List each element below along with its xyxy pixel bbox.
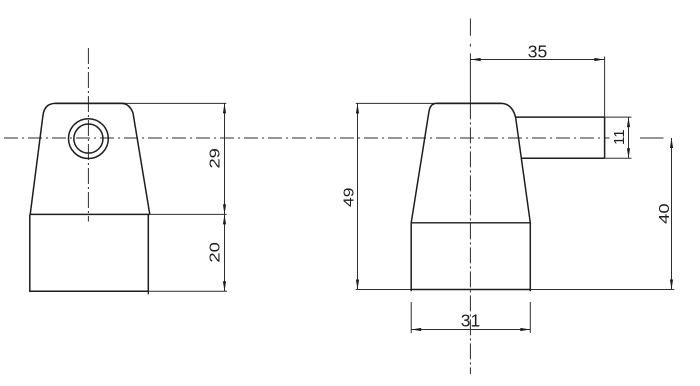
- right view vertical centerline lower part: [469, 103, 471, 374]
- hole inner circle: [74, 124, 103, 153]
- arrow 40 bottom: [670, 280, 673, 290]
- arrow 31 right: [520, 328, 530, 331]
- svg-text:35: 35: [528, 42, 547, 62]
- right view middle line: [411, 222, 530, 224]
- left view middle edge: [30, 213, 150, 215]
- arrow 35 right: [594, 58, 604, 61]
- dimension line 29/20: [224, 103, 226, 291]
- dimension line 31: [411, 329, 530, 331]
- left view bottom edge: [29, 290, 149, 292]
- arrow 40 top: [670, 138, 673, 148]
- right view spout right edge: [604, 117, 606, 158]
- svg-text:11: 11: [611, 129, 628, 145]
- extension lines for 31: [411, 302, 530, 333]
- right view top edge: [437, 102, 503, 104]
- svg-text:49: 49: [340, 187, 357, 207]
- left view top edge: [55, 102, 125, 104]
- arrow 29 top: [223, 103, 226, 113]
- arrow 49 bottom: [356, 280, 359, 290]
- arrow 11 bottom: [627, 148, 630, 158]
- svg-text:20: 20: [207, 242, 224, 263]
- dimension line 35: [470, 59, 604, 61]
- 29-dim top extension line: [125, 102, 226, 104]
- arrow 35 left: [471, 58, 481, 61]
- left view base rectangle: [30, 214, 149, 291]
- arrow 49 top: [356, 104, 359, 114]
- left view vertical centerline: [87, 48, 89, 222]
- extension lines for 11: [605, 117, 632, 158]
- 49-dim top extension line: [356, 102, 438, 104]
- dimension line 11: [628, 117, 630, 158]
- hole outer circle: [69, 119, 109, 159]
- right view centerline solid extension for 35 dim: [469, 53, 471, 103]
- right view vertical centerline: [469, 19, 471, 47]
- 35-dim right extension line: [604, 57, 606, 118]
- svg-text:31: 31: [461, 311, 480, 331]
- horizontal centerline: [4, 137, 610, 139]
- arrow 31 left: [411, 328, 421, 331]
- arrow 11 top: [627, 117, 630, 127]
- arrow 20 top: [223, 214, 226, 224]
- left view corner overshoot tick: [147, 291, 149, 294]
- arrow 29 bottom: [223, 204, 226, 214]
- 29/20-dim middle extension line: [150, 213, 227, 215]
- right view spout top edge: [516, 116, 605, 118]
- svg-text:40: 40: [656, 203, 673, 224]
- right view bottom edge: [411, 289, 532, 291]
- right view body outline: [411, 103, 530, 222]
- svg-text:29: 29: [206, 148, 223, 169]
- left view trapezoid outline: [30, 103, 150, 214]
- right view spout bottom edge: [521, 157, 604, 159]
- right view base rectangle sides: [411, 223, 530, 291]
- dimension line 49: [357, 104, 359, 290]
- dimension line 40: [671, 138, 673, 290]
- 20-dim bottom extension line: [149, 290, 227, 292]
- arrow 20 bottom: [223, 281, 226, 291]
- 40-dim bottom extension line: [530, 289, 674, 291]
- 49-dim bottom extension line: [356, 289, 412, 291]
